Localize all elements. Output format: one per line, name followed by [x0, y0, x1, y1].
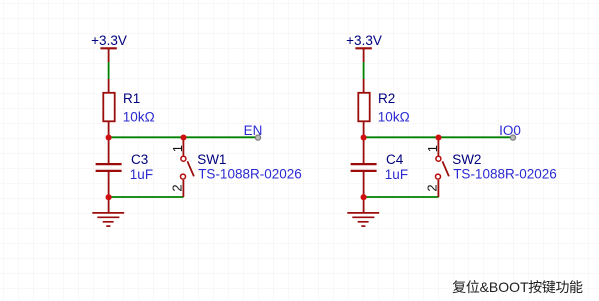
svg-text:10kΩ: 10kΩ — [378, 109, 410, 124]
svg-text:SW2: SW2 — [452, 152, 481, 167]
svg-text:1: 1 — [170, 145, 185, 152]
svg-text:R1: R1 — [123, 91, 140, 106]
svg-text:10kΩ: 10kΩ — [123, 109, 155, 124]
svg-text:EN: EN — [244, 123, 263, 138]
svg-text:C3: C3 — [131, 152, 148, 167]
svg-text:2: 2 — [170, 184, 185, 191]
svg-text:C4: C4 — [386, 152, 404, 167]
svg-text:+3.3V: +3.3V — [91, 33, 127, 48]
svg-text:IO0: IO0 — [499, 123, 521, 138]
svg-text:TS-1088R-02026: TS-1088R-02026 — [453, 167, 557, 182]
svg-text:TS-1088R-02026: TS-1088R-02026 — [198, 167, 302, 182]
svg-text:R2: R2 — [378, 91, 395, 106]
svg-text:SW1: SW1 — [197, 152, 226, 167]
svg-text:1uF: 1uF — [130, 167, 153, 182]
svg-text:1uF: 1uF — [385, 167, 408, 182]
svg-text:2: 2 — [425, 184, 440, 191]
svg-text:1: 1 — [425, 145, 440, 152]
svg-text:&BOOT: &BOOT — [480, 279, 529, 295]
svg-text:+3.3V: +3.3V — [346, 33, 382, 48]
